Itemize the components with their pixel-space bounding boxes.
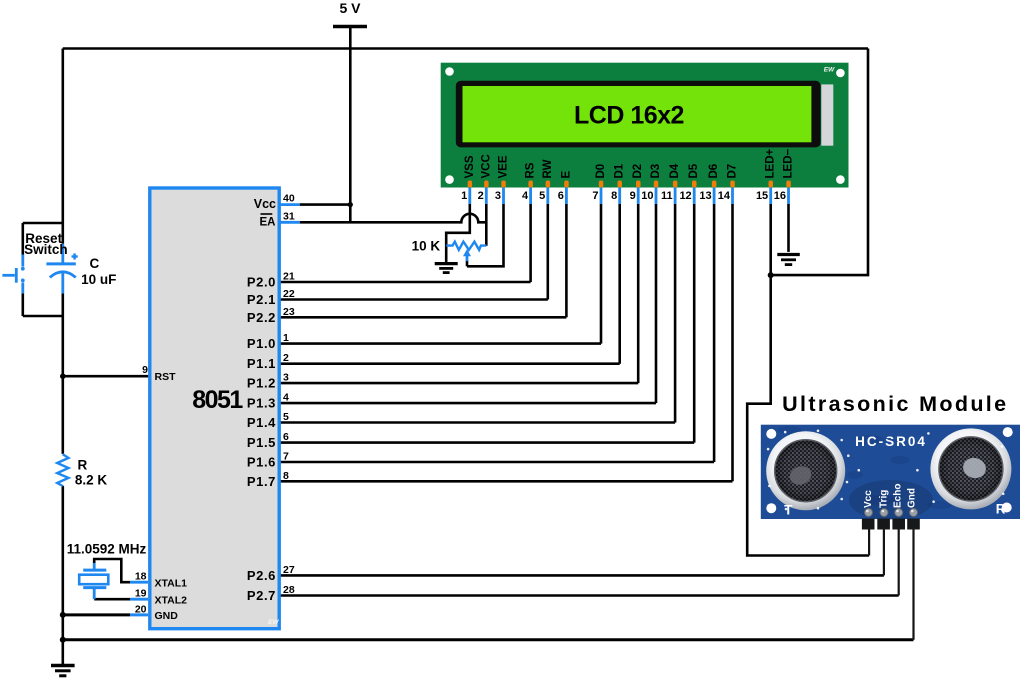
svg-text:C: C [90,256,100,271]
svg-text:EW: EW [268,619,279,626]
svg-text:Ultrasonic Module: Ultrasonic Module [782,392,1008,416]
svg-text:10: 10 [641,190,653,202]
svg-text:D3: D3 [650,164,662,179]
svg-text:10 K: 10 K [412,239,441,254]
svg-text:13: 13 [699,190,711,202]
svg-text:28: 28 [283,584,295,596]
svg-text:Trig: Trig [879,490,890,508]
svg-text:20: 20 [135,603,147,615]
svg-text:P1.6: P1.6 [247,455,276,470]
svg-text:VCC: VCC [480,154,492,178]
svg-text:D7: D7 [727,164,739,179]
svg-text:6: 6 [283,431,289,443]
svg-text:LED+: LED+ [765,149,777,179]
svg-text:18: 18 [135,571,147,583]
svg-text:EW: EW [824,67,835,74]
svg-text:P2.2: P2.2 [247,310,276,325]
svg-text:9: 9 [142,364,148,376]
svg-text:40: 40 [283,193,295,205]
svg-text:8051: 8051 [192,386,243,414]
svg-text:9: 9 [630,190,636,202]
svg-text:R: R [996,502,1006,517]
svg-text:HC-SR04: HC-SR04 [855,434,927,449]
svg-text:Vcc: Vcc [863,490,874,508]
svg-text:P1.1: P1.1 [247,356,276,371]
svg-text:P1.7: P1.7 [247,474,276,489]
svg-text:19: 19 [135,588,147,600]
svg-text:14: 14 [718,190,731,202]
svg-text:P2.1: P2.1 [247,292,276,307]
svg-text:1: 1 [283,332,289,344]
svg-text:2: 2 [283,352,289,364]
svg-text:D2: D2 [632,164,644,179]
svg-text:D6: D6 [708,164,720,179]
svg-text:5: 5 [539,190,545,202]
svg-text:Echo: Echo [893,484,904,508]
svg-text:P2.6: P2.6 [247,568,276,583]
svg-text:D5: D5 [688,163,700,178]
svg-text:RW: RW [542,159,554,178]
svg-text:7: 7 [592,190,598,202]
svg-text:22: 22 [283,288,295,300]
svg-text:3: 3 [495,190,501,202]
svg-text:T: T [784,503,793,518]
svg-text:E: E [560,171,572,179]
svg-text:4: 4 [522,190,529,202]
svg-text:GND: GND [155,610,179,622]
svg-text:3: 3 [283,372,289,384]
svg-text:P2.7: P2.7 [247,588,276,603]
svg-text:EA: EA [260,216,276,228]
svg-text:RS: RS [525,162,537,178]
svg-text:23: 23 [283,306,295,318]
svg-text:8: 8 [611,190,617,202]
svg-text:16: 16 [774,190,786,202]
svg-text:P1.3: P1.3 [247,396,276,411]
svg-text:15: 15 [756,190,768,202]
svg-text:6: 6 [558,190,564,202]
svg-text:D1: D1 [614,163,626,178]
svg-text:P1.5: P1.5 [247,435,276,450]
svg-text:31: 31 [283,210,295,222]
svg-text:XTAL2: XTAL2 [155,594,188,606]
svg-text:P1.4: P1.4 [247,415,276,430]
svg-text:Gnd: Gnd [907,488,918,508]
svg-text:27: 27 [283,564,295,576]
svg-text:12: 12 [679,190,691,202]
svg-text:LCD 16x2: LCD 16x2 [574,102,684,130]
svg-text:P1.2: P1.2 [247,376,276,391]
svg-text:P2.0: P2.0 [247,275,276,290]
svg-text:4: 4 [283,392,289,404]
svg-text:5 V: 5 V [340,0,362,16]
svg-text:7: 7 [283,451,289,463]
svg-text:2: 2 [478,190,484,202]
svg-text:VSS: VSS [464,155,476,178]
svg-text:8.2 K: 8.2 K [75,473,108,488]
svg-text:RST: RST [155,371,177,383]
svg-text:P1.0: P1.0 [247,336,276,351]
svg-text:XTAL1: XTAL1 [155,577,188,589]
svg-text:D0: D0 [595,164,607,179]
svg-text:R: R [78,457,88,472]
svg-text:LED−: LED− [783,149,795,179]
svg-text:10 uF: 10 uF [81,272,116,287]
svg-text:D4: D4 [669,163,681,178]
svg-text:11.0592 MHz: 11.0592 MHz [67,541,147,556]
svg-text:1: 1 [461,190,467,202]
svg-text:8: 8 [283,470,289,482]
svg-text:VEE: VEE [498,155,510,178]
svg-text:Switch: Switch [24,242,68,257]
svg-text:5: 5 [283,411,289,423]
svg-text:21: 21 [283,271,295,283]
svg-text:11: 11 [661,190,673,202]
svg-text:Vcc: Vcc [254,197,276,211]
